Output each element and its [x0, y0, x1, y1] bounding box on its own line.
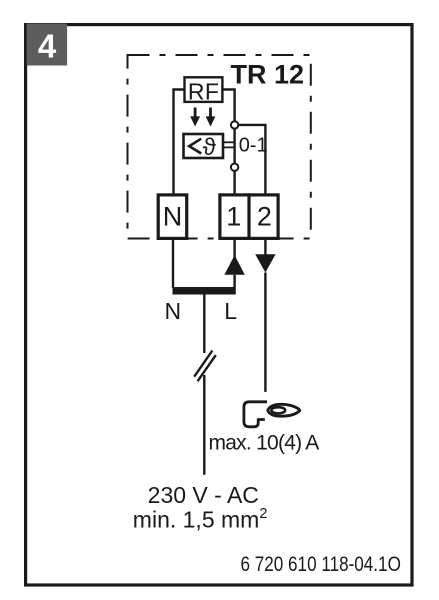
- label 230 V - AC: [148, 482, 259, 508]
- wire and arrow into terminal 1 (L feed): [224, 240, 244, 287]
- svg-text:N: N: [163, 202, 183, 232]
- node label N: [165, 298, 182, 324]
- label 0-1: [239, 135, 268, 157]
- svg-text:min. 1,5 mm2: min. 1,5 mm2: [133, 506, 268, 533]
- mains supply wire (upper part): [203, 295, 205, 354]
- thermostat sensing element box (<ϑ): [184, 134, 224, 161]
- document number: [241, 553, 401, 576]
- RF receiver module RF: [185, 77, 223, 104]
- wire RF to terminal N: [174, 90, 185, 196]
- figure number 4: [27, 24, 68, 66]
- svg-text:0-1: 0-1: [239, 135, 268, 157]
- wire between switch contacts: [233, 129, 235, 164]
- junction bar (N/L): [173, 287, 236, 295]
- lower switch contact: [231, 164, 238, 171]
- terminal 2: [257, 202, 272, 232]
- thermostat enclosure TR 12 (dash-dot outline): [128, 55, 311, 239]
- cable break symbol: [194, 351, 216, 382]
- mechanical link (double line): [223, 142, 234, 147]
- svg-text:6 720 610 118-04.1O: 6 720 610 118-04.1O: [241, 553, 401, 576]
- svg-text:2: 2: [257, 202, 272, 232]
- wire RF to upper switch contact: [222, 90, 234, 122]
- svg-text:230 V - AC: 230 V - AC: [148, 482, 259, 508]
- label min. 1,5 mm2: [133, 506, 268, 533]
- svg-text:N: N: [165, 298, 182, 324]
- node label L: [224, 298, 237, 324]
- upper switch contact: [231, 121, 238, 128]
- wire lower contact to terminal 1: [233, 171, 235, 195]
- svg-text:ϑ: ϑ: [203, 134, 216, 161]
- radio signal arrows: [190, 108, 215, 127]
- mains supply wire (lower part): [203, 375, 205, 475]
- svg-text:L: L: [224, 298, 237, 324]
- wire upper contact to terminal 2: [238, 125, 265, 195]
- svg-text:max. 10(4) A: max. 10(4) A: [209, 432, 320, 455]
- load icon (switched appliance): [244, 402, 300, 427]
- svg-text:TR 12: TR 12: [231, 60, 305, 90]
- terminal N: [158, 195, 187, 239]
- svg-text:RF: RF: [188, 79, 219, 105]
- svg-text:1: 1: [226, 202, 241, 232]
- svg-text:4: 4: [38, 27, 57, 64]
- wire terminal N to junction bar: [172, 240, 174, 288]
- terminal 1: [220, 193, 278, 240]
- label max. 10(4) A: [209, 432, 320, 455]
- label TR 12: [231, 60, 305, 90]
- wire and arrow out of terminal 2 (switched output): [255, 240, 275, 392]
